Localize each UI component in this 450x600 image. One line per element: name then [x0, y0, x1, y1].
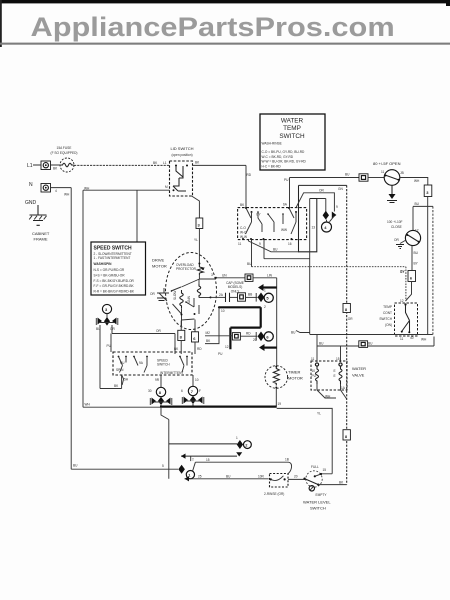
svg-text:BK: BK: [339, 481, 344, 485]
svg-text:RD: RD: [197, 347, 202, 351]
svg-text:9A: 9A: [139, 361, 144, 365]
heavy bar top: [218, 306, 220, 308]
svg-text:8: 8: [159, 390, 162, 395]
speed switch exits: [122, 375, 193, 387]
svg-text:10: 10: [195, 378, 199, 382]
node 1 feed: [71, 468, 178, 470]
svg-text:GND: GND: [25, 200, 37, 206]
thermostat T1: [368, 177, 384, 179]
svg-text:CONT: CONT: [383, 311, 392, 315]
heavy bus bar: [160, 406, 277, 408]
svg-text:F: F: [199, 389, 201, 393]
heavy bar bottom right: [262, 347, 277, 349]
loop wire: [299, 185, 317, 251]
svg-text:C-O: C-O: [240, 226, 246, 230]
motor switch arm: [171, 279, 199, 326]
wire lid switch out BK: [193, 164, 247, 166]
timer motor feed wires: [275, 348, 277, 407]
svg-text:W-C = BK-RD, GY-RD: W-C = BK-RD, GY-RD: [262, 155, 294, 159]
svg-text:BB: BB: [248, 293, 252, 297]
svg-text:LIN: LIN: [267, 274, 273, 278]
wire L1 to fuse: [33, 164, 60, 166]
svg-text:OR: OR: [394, 238, 399, 242]
svg-text:2: 2: [245, 443, 248, 448]
svg-text:100 +/-10F: 100 +/-10F: [387, 220, 403, 224]
scan header bar: [0, 0, 450, 3]
connector 3 right: [424, 185, 432, 197]
wire down from connector: [413, 197, 433, 335]
svg-text:SWITCH: SWITCH: [310, 506, 326, 511]
svg-text:WH: WH: [421, 338, 427, 342]
svg-text:BY: BY: [414, 262, 419, 266]
svg-text:6A: 6A: [283, 203, 288, 207]
node 8 circled: [156, 387, 165, 396]
water temp switch contacts box: [238, 208, 307, 240]
svg-text:GY: GY: [256, 213, 261, 217]
drive motor M1 outline: [166, 253, 217, 330]
wire OR to speed switch: [111, 325, 175, 354]
svg-text:GN: GN: [338, 187, 343, 191]
node 5 circled: [264, 293, 273, 302]
node 4 arrows: [323, 211, 329, 220]
svg-text:1: 1: [236, 436, 238, 440]
svg-text:OR: OR: [348, 317, 353, 321]
wire left bus down: [70, 188, 72, 470]
svg-text:WASH/SPIN: WASH/SPIN: [94, 262, 113, 266]
svg-text:11: 11: [238, 242, 242, 246]
wire drops to water valve: [317, 346, 341, 362]
node 2 circled: [244, 441, 252, 449]
connector 6: [408, 271, 416, 282]
node 5 arrow: [258, 293, 265, 303]
wire from node3 down: [100, 325, 122, 389]
svg-text:9R: 9R: [155, 378, 160, 382]
node 3 circled: [102, 304, 111, 313]
svg-text:BU: BU: [226, 475, 231, 479]
svg-text:EMPTY: EMPTY: [316, 493, 328, 497]
svg-text:9: 9: [336, 205, 338, 209]
svg-text:S+S = BK-GR/BU-OR: S+S = BK-GR/BU-OR: [94, 273, 126, 277]
main winding: [197, 284, 200, 298]
svg-text:MOTOR: MOTOR: [152, 264, 167, 269]
svg-text:W-W = BU-OR, BK-RD, GY-RD: W-W = BU-OR, BK-RD, GY-RD: [262, 160, 307, 164]
connector P2: [41, 184, 51, 193]
wire to water level: [288, 478, 306, 480]
svg-text:13: 13: [312, 226, 316, 230]
svg-text:N-S = GR-PU/RD-GR: N-S = GR-PU/RD-GR: [94, 268, 125, 272]
svg-text:N: N: [29, 182, 33, 188]
wire lid sw bottom to motor column: [192, 196, 200, 218]
connector 8 lower on GN bus: [343, 430, 350, 440]
node 7 arrows: [184, 396, 203, 404]
wire 13 down: [309, 199, 311, 335]
svg-text:PU: PU: [107, 344, 112, 348]
thermostat T2: [412, 207, 414, 231]
svg-text:10R: 10R: [258, 475, 265, 479]
wire PU to thermostat: [290, 178, 360, 208]
svg-text:YL: YL: [317, 412, 321, 416]
svg-text:UN: UN: [222, 274, 227, 278]
circled 4: [322, 222, 332, 232]
wire bus A: [310, 334, 433, 336]
node 1 arrow: [178, 465, 185, 474]
svg-text:C-O = BK-PU, GY-RD, BU-RD: C-O = BK-PU, GY-RD, BU-RD: [262, 150, 306, 154]
svg-text:SPIN: SPIN: [116, 368, 124, 372]
console outputs: [249, 240, 310, 259]
OR wire to node 4: [296, 193, 334, 212]
svg-text:4: 4: [324, 225, 327, 230]
svg-text:BU: BU: [247, 262, 252, 266]
speed switch legend box: [91, 242, 146, 295]
wire UN row: [216, 277, 245, 279]
svg-text:VALVE: VALVE: [352, 373, 365, 378]
svg-text:19: 19: [278, 402, 282, 406]
node 3 arrows: [104, 317, 110, 326]
svg-text:BK: BK: [153, 161, 158, 165]
svg-text:OR: OR: [150, 292, 155, 296]
svg-text:PU: PU: [312, 374, 317, 378]
svg-text:F-S = BK-BK/GY-BU/RD-OR: F-S = BK-BK/GY-BU/RD-OR: [94, 279, 135, 283]
svg-text:BU: BU: [273, 248, 278, 252]
svg-text:2A: 2A: [219, 293, 224, 297]
svg-text:SWITCH: SWITCH: [379, 317, 392, 321]
BK stub: [205, 308, 219, 344]
connector C2: [359, 341, 368, 348]
svg-text:BU: BU: [414, 251, 419, 255]
svg-text:1: 1: [264, 289, 266, 293]
svg-text:15A FUSE: 15A FUSE: [57, 146, 72, 150]
svg-text:80 +/-5F OPEN: 80 +/-5F OPEN: [373, 161, 401, 166]
svg-text:SLOW: SLOW: [173, 291, 177, 300]
svg-text:BU: BU: [345, 173, 350, 177]
svg-text:L1: L1: [163, 161, 167, 165]
node 6 arrows: [258, 332, 265, 352]
svg-text:WATER: WATER: [352, 366, 366, 371]
svg-text:OR: OR: [156, 329, 161, 333]
svg-text:BK: BK: [195, 161, 200, 165]
svg-text:INTERMITTENT: INTERMITTENT: [160, 371, 183, 375]
M2 wire row: [205, 335, 232, 337]
svg-text:F-F = GR-PU/GY-BK/RD-BK: F-F = GR-PU/GY-BK/RD-BK: [94, 284, 135, 288]
svg-text:WH: WH: [84, 187, 90, 191]
ground at T1: [391, 185, 393, 194]
svg-text:15: 15: [323, 468, 327, 472]
svg-text:12: 12: [225, 345, 229, 349]
svg-text:11: 11: [311, 357, 315, 361]
wire down to console: [245, 165, 247, 207]
svg-text:W-C: W-C: [240, 231, 247, 235]
svg-text:WH: WH: [64, 193, 70, 197]
svg-text:BU: BU: [368, 342, 373, 346]
bottom drop bus: [161, 407, 169, 479]
svg-text:WW: WW: [281, 228, 287, 232]
svg-text:BK: BK: [206, 339, 211, 343]
svg-text:PU: PU: [284, 178, 289, 182]
wire second left bus down: [82, 190, 84, 407]
svg-text:WATER: WATER: [281, 118, 304, 125]
svg-text:SWITCH: SWITCH: [279, 133, 305, 140]
speed switch contacts S2: [113, 352, 192, 375]
svg-text:BK: BK: [240, 203, 245, 207]
svg-text:LID SWITCH: LID SWITCH: [170, 146, 193, 151]
svg-text:2-RINSE (OR): 2-RINSE (OR): [264, 492, 284, 496]
connector 6 motor: [192, 332, 199, 342]
svg-text:WASH-RINSE: WASH-RINSE: [262, 142, 282, 146]
node 2 row: [169, 443, 237, 445]
dotted GY line: [251, 240, 253, 267]
header rule: [0, 43, 450, 45]
svg-text:20: 20: [294, 475, 298, 479]
svg-text:BU: BU: [415, 202, 420, 206]
svg-text:TIMER: TIMER: [288, 370, 301, 375]
water valve V1: [311, 361, 347, 390]
wire fuse to lid switch: [74, 164, 170, 166]
svg-text:WH: WH: [325, 395, 331, 399]
svg-text:FULL: FULL: [311, 465, 319, 469]
svg-text:10: 10: [221, 309, 225, 313]
svg-text:TEMP: TEMP: [283, 125, 301, 132]
connector C3: [245, 274, 253, 281]
connector P1: [41, 161, 51, 170]
node 7 circled: [188, 386, 197, 395]
svg-text:CABINET: CABINET: [32, 231, 50, 236]
wire WH to lid switch: [83, 189, 170, 191]
connector 3: [196, 218, 203, 229]
svg-text:WH: WH: [85, 403, 91, 407]
wire T2 down: [411, 246, 413, 271]
svg-text:40: 40: [410, 336, 414, 340]
valve coil L1: [316, 366, 319, 384]
svg-text:6: 6: [266, 334, 269, 339]
connector C1: [359, 174, 368, 181]
svg-text:6: 6: [181, 389, 183, 393]
node 1 row lower: [185, 478, 269, 480]
svg-text:1A: 1A: [341, 386, 346, 390]
svg-text:BK: BK: [114, 384, 119, 388]
svg-text:PU: PU: [218, 352, 223, 356]
rinse switch S3: [270, 474, 289, 488]
heavy stub above node 5: [263, 286, 277, 288]
svg-text:10: 10: [312, 369, 316, 373]
svg-text:H-C = BK-RD: H-C = BK-RD: [262, 164, 282, 168]
start winding: [180, 290, 183, 309]
svg-text:1 - FAST/INTERMITTENT: 1 - FAST/INTERMITTENT: [94, 256, 131, 260]
svg-text:CLOSE: CLOSE: [391, 225, 402, 229]
connector 8 on GN bus: [343, 304, 350, 313]
svg-text:OR: OR: [319, 189, 324, 193]
svg-text:16: 16: [288, 242, 292, 246]
svg-text:RD: RD: [247, 173, 252, 177]
svg-text:DRIVE: DRIVE: [152, 258, 165, 263]
water temp switch legend box: [260, 114, 325, 170]
svg-text:AppliancePartsPros.com: AppliancePartsPros.com: [31, 12, 395, 42]
svg-text:3: 3: [105, 307, 108, 312]
wire bus B: [317, 335, 434, 347]
node 2 row b: [181, 455, 237, 457]
svg-text:JB: JB: [400, 171, 404, 175]
svg-text:15: 15: [336, 357, 340, 361]
svg-text:T: T: [192, 458, 194, 462]
valve bottom wires: [317, 384, 347, 399]
capacitor C5: [211, 296, 226, 298]
svg-text:1B: 1B: [285, 458, 289, 462]
svg-text:R-R = BK-BK/GY-RD/RD-BK: R-R = BK-BK/GY-RD/RD-BK: [94, 290, 135, 294]
svg-text:SWITCH: SWITCH: [157, 362, 170, 366]
svg-text:E: E: [334, 369, 336, 373]
svg-text:12: 12: [400, 299, 404, 303]
svg-text:BU: BU: [319, 342, 324, 346]
wire N: [51, 187, 72, 189]
svg-text:M2: M2: [206, 331, 211, 335]
svg-text:25: 25: [198, 475, 202, 479]
svg-text:2: 2: [264, 305, 266, 309]
WH bus to heavy bar: [83, 406, 160, 408]
svg-text:PU: PU: [120, 361, 125, 365]
svg-text:MOTOR: MOTOR: [288, 376, 303, 381]
svg-text:5: 5: [162, 464, 164, 468]
node 1 circled: [186, 471, 194, 479]
svg-text:TEMP: TEMP: [383, 305, 392, 309]
YL wire to water level: [277, 408, 333, 473]
svg-text:E: E: [334, 374, 336, 378]
connector C4: [238, 293, 246, 301]
svg-text:PROTECTOR: PROTECTOR: [176, 267, 197, 271]
svg-text:(F SO EQUIPPED): (F SO EQUIPPED): [51, 151, 78, 155]
svg-text:5: 5: [266, 296, 269, 301]
wire to temp cont switch: [406, 282, 412, 302]
svg-text:(ON): (ON): [385, 323, 392, 327]
svg-text:BU: BU: [73, 464, 78, 468]
wire T1 to right column: [400, 178, 428, 186]
svg-text:WH: WH: [414, 179, 420, 183]
svg-text:FRAME: FRAME: [34, 237, 48, 242]
svg-text:RD: RD: [246, 332, 251, 336]
svg-text:11: 11: [400, 337, 404, 341]
svg-text:7: 7: [191, 389, 194, 394]
svg-text:GY: GY: [400, 270, 405, 274]
valve coil L2: [339, 366, 342, 384]
connector 8 motor: [178, 330, 185, 340]
svg-text:BK: BK: [53, 167, 58, 171]
connector C6: [232, 333, 240, 340]
node 8 arrows: [152, 397, 171, 405]
svg-text:YL: YL: [194, 238, 198, 242]
svg-text:WATER LEVEL: WATER LEVEL: [303, 500, 331, 505]
water temp circuit GN wire: [299, 184, 347, 186]
svg-text:11: 11: [381, 170, 385, 174]
svg-text:L1: L1: [27, 163, 33, 169]
svg-text:3: 3: [211, 273, 213, 277]
wire water level to GN bus: [318, 484, 346, 486]
svg-text:OR: OR: [110, 327, 115, 331]
wire stub down: [136, 190, 138, 242]
svg-text:30: 30: [148, 389, 152, 393]
svg-text:4: 4: [55, 189, 57, 193]
fuse F1: [60, 158, 74, 172]
motor outputs down: [181, 320, 195, 332]
motor internal wiring: [181, 275, 216, 287]
node 6 circled: [264, 332, 273, 341]
svg-text:12: 12: [415, 229, 419, 233]
svg-text:(open position): (open position): [171, 153, 192, 157]
wire to motor: [198, 229, 200, 264]
svg-text:9: 9: [259, 242, 261, 246]
node 1 row upper: [193, 462, 292, 474]
svg-text:SPEED SWITCH: SPEED SWITCH: [94, 246, 132, 252]
svg-text:5H: 5H: [124, 378, 129, 382]
svg-text:M: M: [165, 185, 168, 189]
svg-text:15: 15: [206, 458, 210, 462]
svg-text:BU: BU: [291, 331, 296, 335]
contact arms: [246, 208, 297, 234]
